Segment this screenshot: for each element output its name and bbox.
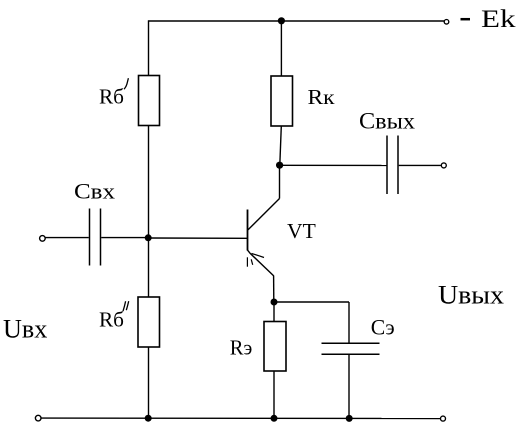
svg-text:Uвых: Uвых (438, 281, 504, 310)
resistor Re body (264, 322, 286, 372)
wire: emitter node to Re (273, 302, 275, 322)
label Rb'' double prime marks (123, 301, 126, 311)
transistor VT base bar (247, 210, 249, 251)
svg-text:VT: VT (287, 219, 316, 243)
junction: collector node dot (276, 162, 283, 169)
terminal: bottom-left open circle (35, 415, 41, 421)
wire: collector node to Cvyx (280, 164, 387, 166)
resistor Rk body (271, 76, 293, 126)
svg-text:Rк: Rк (308, 85, 336, 109)
svg-text:Сэ: Сэ (371, 314, 395, 339)
wire: bottom rail (41, 417, 440, 419)
resistor Rb' body (139, 76, 160, 126)
wire: Rk branch top segment (280, 20, 282, 76)
terminal: input open circle (40, 236, 46, 242)
transistor VT emitter arrow barb lower (251, 259, 253, 265)
junction: bottom rail Re dot (271, 415, 278, 422)
junction: base node dot (145, 234, 152, 241)
wire: Ce branch down to top plate (348, 302, 350, 343)
junction: bottom rail Ce dot (346, 415, 353, 422)
capacitor Cvyx left plate (386, 136, 388, 195)
junction: bottom rail left branch dot (145, 415, 152, 422)
wire: emitter node to Ce branch (274, 301, 349, 303)
svg-text:Свх: Свх (74, 179, 115, 204)
junction: emitter node dot (271, 299, 278, 306)
label Rb' prime mark (124, 78, 128, 89)
terminal: output open circle (441, 163, 446, 168)
terminal: -Ek open circle (444, 20, 449, 25)
svg-text:Uвх: Uвх (3, 315, 47, 344)
terminal: bottom-right open circle (441, 416, 446, 421)
capacitor Cvx right plate (100, 209, 102, 266)
wire: left branch upper segment (148, 20, 150, 75)
wire: Cvyx to output terminal (399, 164, 441, 166)
svg-text:Rб: Rб (99, 85, 124, 109)
capacitor Cvx left plate (89, 209, 91, 266)
wire: Re to bottom rail (273, 371, 275, 418)
wire: left branch lower segment (148, 347, 150, 418)
transistor VT emitter arrow barb upper (252, 254, 265, 258)
wire: Cvx to base node (101, 237, 148, 239)
svg-text:Rэ: Rэ (230, 336, 253, 360)
wire: top supply rail (149, 20, 445, 22)
svg-text:Rб: Rб (99, 308, 124, 332)
capacitor Ce bottom plate (322, 353, 380, 355)
wire: Ce to bottom rail (348, 355, 350, 419)
wire: base node to transistor base (149, 237, 248, 239)
label - Ek minus sign (461, 18, 471, 21)
wire: input terminal to Cvx (46, 237, 89, 239)
transistor VT emitter line (248, 250, 274, 276)
wire: collector diagonal to base bar (248, 199, 280, 231)
wire: collector node down (279, 165, 281, 198)
wire: Rk bottom to collector node (280, 126, 282, 165)
wire: left branch middle segment (148, 126, 150, 298)
wire: emitter down to emitter node (273, 276, 275, 303)
svg-text:Ek: Ek (481, 4, 516, 33)
junction: top rail / Rk branch dot (278, 17, 285, 24)
transistor VT base bar lower dash (246, 257, 248, 266)
capacitor Cvyx right plate (397, 136, 399, 195)
capacitor Ce top plate (322, 342, 380, 344)
svg-text:Свых: Свых (359, 108, 416, 133)
resistor Rb'' body (138, 297, 160, 347)
